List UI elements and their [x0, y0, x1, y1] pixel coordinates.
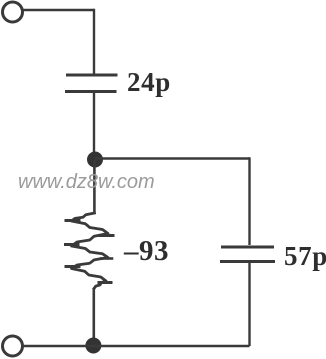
terminal top-left [3, 2, 23, 22]
wire C1 to node A [93, 93, 95, 159]
wire node A to resistor [93, 160, 96, 212]
terminal bottom-left [3, 336, 23, 356]
capacitor C2 57p top plate [221, 246, 274, 249]
value label 24p [127, 69, 171, 96]
wire C2 to bottom [248, 263, 250, 346]
wire top vertical [93, 9, 95, 74]
node B junction dot [85, 338, 101, 354]
capacitor C1 24p bottom plate [65, 90, 117, 93]
capacitor C1 24p top plate [66, 74, 118, 77]
capacitor C2 57p bottom plate [220, 260, 275, 263]
wire top horizontal [24, 9, 95, 11]
node A junction dot [87, 152, 103, 168]
wire resistor to node B [93, 289, 96, 340]
resistor R1 zigzag [66, 213, 114, 289]
watermark www.dz8w.com [18, 172, 155, 192]
wire right branch down [248, 157, 250, 245]
wire node A to right [95, 157, 250, 159]
value label 57p [284, 243, 326, 270]
value label -93 [124, 237, 169, 266]
wire bottom horizontal [24, 345, 250, 347]
